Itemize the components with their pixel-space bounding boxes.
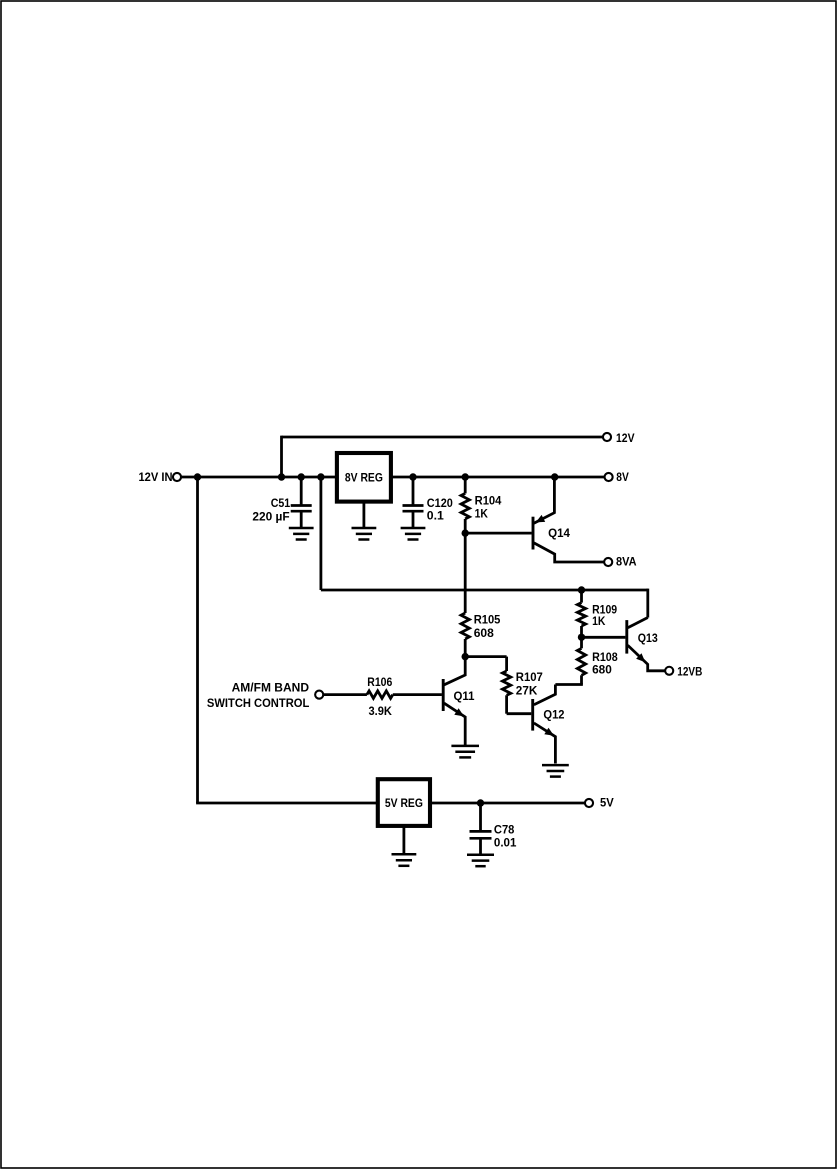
- svg-text:220 µF: 220 µF: [252, 510, 290, 524]
- terminal 12VB: [665, 664, 702, 678]
- node Q14 emitter junction: [551, 473, 558, 480]
- regulator 8V REG: [337, 453, 391, 502]
- wire Q13 collector feed: [646, 589, 649, 618]
- svg-text:5V REG: 5V REG: [385, 796, 423, 810]
- terminal 12V IN: [139, 470, 182, 484]
- ground C120: [401, 528, 426, 540]
- resistor R108: [555, 637, 617, 684]
- ground Q12: [542, 765, 569, 777]
- svg-text:8VA: 8VA: [616, 555, 637, 569]
- capacitor C120: [403, 477, 453, 528]
- svg-text:Q13: Q13: [638, 631, 658, 645]
- ground 5V REG: [392, 826, 417, 866]
- node 12V branch junction: [278, 473, 285, 480]
- wire to 12V terminal: [282, 436, 604, 477]
- transistor Q14: [533, 476, 604, 562]
- capacitor C51: [252, 477, 311, 528]
- ground C78: [467, 855, 494, 867]
- svg-text:R107: R107: [516, 670, 543, 684]
- terminal AM/FM band switch control: [207, 681, 323, 710]
- resistor R104: [461, 477, 501, 533]
- wire Q11 base: [393, 693, 442, 696]
- svg-text:27K: 27K: [516, 684, 538, 698]
- svg-text:R104: R104: [475, 494, 502, 508]
- wire Q13 base: [582, 636, 626, 639]
- transistor Q11: [443, 657, 474, 746]
- wire control input: [323, 693, 367, 696]
- resistor R105: [461, 613, 500, 657]
- node lower rail junction: [317, 473, 324, 480]
- wire 8V rail: [391, 476, 605, 479]
- svg-text:R108: R108: [592, 650, 618, 664]
- svg-text:12V IN: 12V IN: [139, 470, 173, 484]
- svg-text:C51: C51: [271, 496, 291, 510]
- svg-text:1K: 1K: [475, 507, 488, 521]
- resistor R107: [502, 670, 542, 714]
- ground 8V REG: [352, 501, 377, 539]
- svg-text:1K: 1K: [592, 614, 605, 628]
- wire bottom to 5V REG input: [196, 802, 378, 805]
- svg-text:608: 608: [474, 626, 494, 640]
- wire drop to lower rail: [319, 477, 322, 590]
- wire Q14 base: [465, 532, 531, 535]
- svg-text:Q11: Q11: [454, 689, 475, 703]
- node Q13 base junction: [578, 634, 585, 641]
- node R109 top junction: [578, 586, 585, 593]
- svg-text:8V: 8V: [616, 470, 629, 484]
- resistor R109: [577, 590, 617, 637]
- svg-text:5V: 5V: [600, 796, 614, 810]
- wire to R105: [464, 533, 467, 613]
- svg-text:680: 680: [592, 663, 612, 677]
- svg-text:8V REG: 8V REG: [345, 471, 383, 485]
- svg-text:0.01: 0.01: [494, 835, 517, 849]
- ground C51: [289, 528, 314, 540]
- resistor R106: [367, 675, 393, 718]
- node left drop junction: [194, 473, 201, 480]
- wire left vertical to 5V REG: [196, 477, 199, 803]
- svg-text:12VB: 12VB: [677, 664, 702, 678]
- capacitor C78: [470, 803, 517, 855]
- node R104 top: [462, 473, 469, 480]
- terminal 12V: [603, 431, 635, 445]
- node C51 junction: [298, 473, 305, 480]
- svg-text:12V: 12V: [616, 431, 635, 445]
- svg-text:R105: R105: [474, 613, 501, 627]
- svg-text:SWITCH CONTROL: SWITCH CONTROL: [207, 696, 310, 710]
- transistor Q13: [627, 618, 665, 671]
- svg-text:Q12: Q12: [543, 708, 564, 722]
- wire 5V rail: [430, 802, 585, 805]
- svg-text:3.9K: 3.9K: [369, 704, 392, 718]
- wire lower rail: [321, 589, 648, 592]
- node C120 junction: [409, 473, 416, 480]
- node Q14 base junction: [462, 529, 469, 536]
- svg-text:AM/FM BAND: AM/FM BAND: [232, 681, 309, 695]
- terminal 8V: [605, 470, 630, 484]
- transistor Q12: [533, 685, 565, 764]
- node C78 junction: [477, 799, 484, 806]
- wire 12V input rail: [181, 476, 337, 479]
- terminal 8VA: [604, 555, 636, 569]
- svg-text:0.1: 0.1: [427, 508, 444, 522]
- svg-text:R106: R106: [367, 675, 392, 689]
- node Q11 collector junction: [462, 653, 469, 660]
- terminal 5V: [585, 796, 614, 810]
- svg-text:C78: C78: [494, 822, 515, 836]
- regulator 5V REG: [378, 779, 430, 826]
- svg-text:Q14: Q14: [548, 526, 570, 540]
- wire to R107: [465, 657, 506, 671]
- ground Q11: [451, 746, 479, 758]
